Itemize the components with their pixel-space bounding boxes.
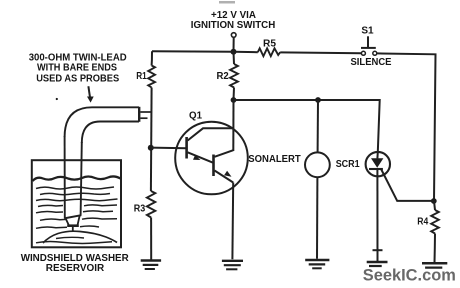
- svg-text:SILENCE: SILENCE: [351, 57, 392, 68]
- transistor Q1 T1 collector: [188, 128, 234, 140]
- reservoir water squiggle 2: [40, 193, 110, 195]
- wire top rail left: [152, 51, 258, 52]
- svg-text:SeekIC.com: SeekIC.com: [363, 267, 456, 285]
- resistor R2: [233, 52, 236, 64]
- transistor Q1 circle: [175, 122, 248, 195]
- twin-lead cable inner bend: [82, 122, 139, 144]
- wire bare end bottom: [140, 117, 147, 119]
- node junction R2/mid rail: [231, 97, 237, 103]
- wire SCR1 cathode to ground: [376, 169, 378, 262]
- SCR1 cathode bar: [369, 168, 383, 170]
- svg-text:SONALERT: SONALERT: [248, 153, 301, 165]
- twin-lead cable end bar: [138, 107, 140, 122]
- reservoir water squiggle 6: [40, 218, 117, 220]
- wire terminal to top rail: [233, 38, 235, 52]
- wire SCR1 gate: [381, 170, 434, 201]
- node junction base: [148, 145, 154, 151]
- node +12V supply label: [191, 9, 276, 31]
- reservoir water squiggle 9: [56, 237, 84, 238]
- transistor Q1 T1 emitter: [188, 152, 213, 162]
- twin-lead cable outer bend: [65, 107, 139, 137]
- svg-text:R1: R1: [136, 71, 147, 82]
- probe electrode: [64, 215, 81, 218]
- reservoir water mound: [43, 231, 117, 243]
- wire base lead: [151, 147, 187, 150]
- wire R4 to ground: [434, 234, 437, 263]
- wire sonalert drop: [317, 100, 319, 152]
- wire R2 bottom lead: [233, 88, 236, 101]
- svg-text:R2: R2: [217, 71, 230, 82]
- switch S1: [361, 26, 374, 37]
- reservoir water surface: [33, 176, 121, 181]
- wire top rail to right rail: [377, 53, 435, 201]
- twin-lead cable right drop: [81, 142, 82, 216]
- ground G5 R4: [422, 262, 447, 265]
- wire Q1 collector rail: [232, 100, 234, 151]
- svg-text:WITH BARE ENDS: WITH BARE ENDS: [37, 63, 117, 74]
- svg-text:R5: R5: [263, 38, 276, 49]
- svg-text:Q1: Q1: [189, 111, 202, 122]
- reservoir water squiggle 3: [36, 199, 118, 201]
- transistor Q1 T2 collector: [215, 150, 234, 157]
- svg-text:IGNITION SWITCH: IGNITION SWITCH: [191, 19, 276, 31]
- wire bare end top: [140, 111, 150, 113]
- resistor R3: [147, 191, 155, 218]
- svg-text:S1: S1: [361, 26, 374, 37]
- svg-text:R3: R3: [134, 203, 146, 214]
- probes label: [29, 52, 127, 84]
- sonalert circle: [305, 152, 330, 177]
- reservoir water squiggle 5: [36, 211, 113, 213]
- transistor Q1 T2 base bar: [212, 155, 215, 177]
- reservoir water squiggle 8: [36, 242, 112, 244]
- svg-text:RESERVOIR: RESERVOIR: [46, 263, 105, 274]
- transistor Q1 T1 base bar: [185, 137, 188, 159]
- svg-text:R4: R4: [417, 217, 428, 228]
- ground G1 R3: [141, 259, 161, 261]
- scan artifact smudge: [219, 1, 235, 4]
- wire sonalert to ground: [316, 178, 318, 259]
- wire Q1 emitter to ground: [231, 183, 234, 260]
- twin-lead cable left drop: [64, 136, 66, 218]
- reservoir water squiggle 1: [36, 187, 114, 189]
- reservoir label: [21, 253, 130, 274]
- ground G3 sonalert: [305, 259, 329, 261]
- resistor R4: [431, 210, 439, 234]
- node junction sonalert branch: [315, 97, 321, 103]
- resistor R5: [258, 48, 280, 56]
- transistor Q1 T2 emitter: [215, 171, 234, 183]
- svg-text:SCR1: SCR1: [336, 159, 360, 170]
- SCR1 anode triangle: [371, 158, 383, 168]
- wire R3 to ground: [150, 218, 152, 260]
- reservoir water squiggle 4: [38, 205, 117, 207]
- wire R1 bottom lead: [150, 88, 153, 192]
- node junction top rail: [231, 49, 237, 55]
- ground G2 Q1: [222, 260, 243, 262]
- resistor R1: [151, 51, 153, 65]
- node junction gate/right rail: [431, 198, 437, 204]
- ground G4 SCR1: [373, 249, 383, 251]
- node +12V terminal: [231, 33, 236, 38]
- wire top rail right of R5: [280, 51, 361, 54]
- watermark SeekIC.com: [363, 267, 456, 285]
- svg-text:USED AS PROBES: USED AS PROBES: [36, 73, 119, 84]
- wire right rail to R4: [434, 201, 435, 210]
- reservoir tank: [32, 160, 121, 247]
- probes label arrow: [88, 86, 90, 97]
- wire mid rail: [234, 100, 380, 158]
- reservoir water squiggle 7: [36, 226, 99, 228]
- speck: [56, 98, 58, 100]
- SCR1 circle: [366, 152, 390, 176]
